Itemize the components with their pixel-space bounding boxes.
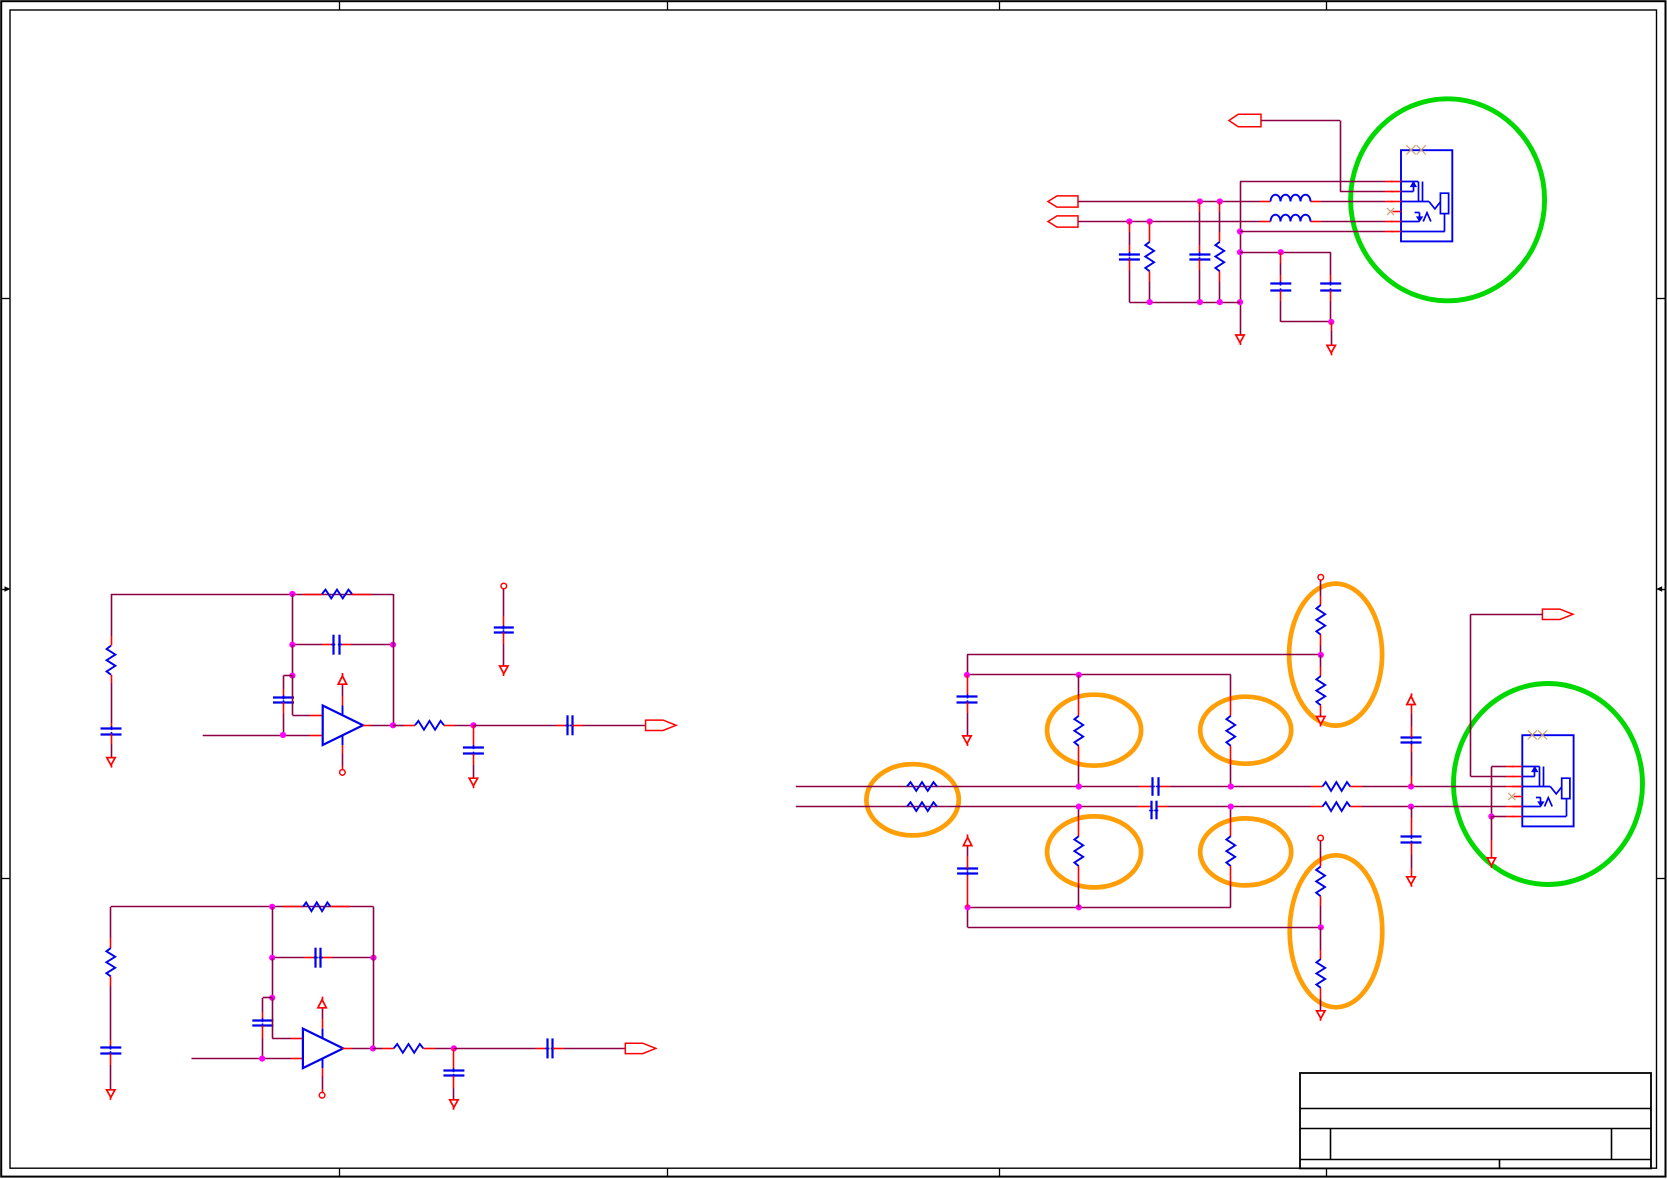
jack J2 no-connect X top pair (1528, 730, 1547, 739)
node D row3 cap junction (1197, 198, 1203, 204)
resistor RA1 (feedback) (303, 590, 371, 599)
wire C top bus right (1350, 786, 1522, 788)
border zone ticks bottom (340, 1168, 1327, 1176)
node C RC5 top junction (1076, 672, 1082, 678)
capacitor CA3 (comp) (273, 695, 294, 704)
jack J1 no-connect X pin4 (1387, 208, 1394, 215)
node D vert junction row6 (1237, 228, 1243, 234)
node B RC junction (451, 1045, 457, 1051)
node B fb-mid left junction (269, 955, 275, 961)
title block row line 2 (1300, 1128, 1651, 1130)
node C divider bottom junction (1318, 924, 1324, 930)
wire C RC9 upper (1078, 807, 1080, 837)
capacitor CC1 (top bus series) (1151, 777, 1160, 796)
wire B left drop (110, 907, 112, 948)
power pin circle C bottom divider (1318, 835, 1324, 841)
jack J2 tip switch arrow (1522, 767, 1537, 777)
wire D CD4 lower (1330, 290, 1332, 322)
wire B shunt drop (453, 1048, 455, 1070)
node B inverting branch junction (269, 995, 275, 1001)
wire CA6 upper (503, 589, 505, 628)
wire D CD1 lower (1129, 259, 1131, 302)
orange ellipse around RC11 RC12 (1290, 855, 1383, 1007)
wire A CA5 to connector (572, 725, 646, 727)
wire A after RA3 (444, 725, 473, 727)
wire E ground drop (1491, 817, 1493, 858)
wire C bottom bus right (1350, 806, 1522, 808)
node E ground junction (1488, 813, 1494, 819)
capacitor CA5 (output series) (565, 715, 574, 735)
resistor RC5 (1074, 716, 1083, 746)
wire B feedback top (111, 906, 374, 908)
jack J2 ring contact line (1522, 787, 1561, 794)
output connector A (646, 720, 677, 730)
orange ellipse around RC1 RC2 (866, 764, 958, 835)
op-amp UB (303, 1029, 343, 1069)
title block cell divider left (1330, 1128, 1332, 1159)
orange ellipse around RC5 (1047, 695, 1141, 766)
wire B output stub (342, 1048, 373, 1050)
resistor RC8 (divider lower) (1316, 676, 1325, 705)
wire C bottom bus left (796, 806, 1151, 808)
wire A output stub (363, 725, 393, 727)
power pin circle CA6 (501, 583, 507, 589)
orange ellipse around RC10 (1200, 818, 1291, 885)
wire C RC8 lower (1320, 705, 1322, 716)
node D row3 res junction (1217, 198, 1223, 204)
wire A left drop (111, 594, 113, 646)
output connector E (1542, 609, 1573, 619)
wire E row1 link (1491, 766, 1514, 768)
capacitor CA6 (decoupling) (494, 626, 514, 635)
wire C below CC3 (967, 702, 969, 736)
border center arrow left (1, 586, 10, 592)
capacitor CC6 (bottom ref) (957, 867, 978, 876)
resistor RC6 (1226, 716, 1235, 746)
jack J2 sleeve lines (1540, 767, 1544, 787)
resistor RA3 (output series) (415, 721, 444, 730)
resistor RB1 (feedback) (283, 902, 350, 911)
node A RC junction (470, 722, 476, 728)
node A inverting branch junction (289, 673, 295, 679)
wire C3 vert (967, 907, 969, 927)
wire CA6 lower (503, 632, 505, 666)
input connector D left upper (1048, 196, 1078, 207)
wire B fb mid vertical (272, 907, 274, 958)
jack J2 no-connect X pin4 (1508, 793, 1515, 800)
border zone ticks left (1, 299, 10, 879)
jack J1 sleeve lines (1419, 182, 1423, 202)
capacitor CB2 (feedback) (314, 948, 323, 968)
title block cell divider right (1611, 1128, 1613, 1159)
node D vert junction w2 (1237, 249, 1243, 255)
wire C RC9 lower (1078, 866, 1080, 907)
jack J1 tip contact line (1401, 181, 1418, 183)
output connector B (625, 1043, 656, 1053)
wire A to CA5 (473, 725, 567, 727)
ground C top ref (963, 736, 971, 746)
wire A inverting input (292, 676, 322, 716)
ground arrow C bottom (1407, 877, 1415, 887)
node A input junction (280, 732, 286, 738)
wire D row3 line (1078, 201, 1393, 203)
wire C bottom bus mid (1156, 806, 1322, 808)
ground B output (450, 1100, 458, 1110)
power pin circle UA V- (340, 770, 346, 776)
resistor RA2 (input shunt) (107, 646, 116, 675)
wire C above CC6 (967, 846, 969, 869)
wire A CA3 to input line (283, 702, 285, 735)
jack J2 pin stubs (1512, 767, 1522, 817)
wire A below RA2 (111, 675, 113, 728)
node D cap ground junction (1328, 319, 1334, 325)
wire D RD2 upper (1219, 202, 1221, 242)
resistor RC3 (top bus series right) (1323, 782, 1351, 791)
wire D connector link (1261, 121, 1393, 192)
node C RC5 bus junction (1076, 783, 1082, 789)
node D rail junction 2 (1197, 299, 1203, 305)
wire C RC11 upper (1320, 841, 1322, 867)
node A fb-mid left junction (289, 642, 295, 648)
inductor LD2 (1271, 215, 1311, 222)
wire B below CB4 (453, 1076, 455, 1100)
wire A feedback mid (292, 644, 393, 646)
jack J1 no-connect X top pair (1406, 145, 1425, 154)
node C cap top junction (964, 672, 970, 678)
input connector D left lower (1048, 216, 1078, 227)
wire B after RB3 (423, 1048, 454, 1050)
node B output junction (370, 1045, 376, 1051)
green circle around jack J2 (1454, 684, 1643, 885)
ground D second (1327, 345, 1335, 355)
ground D main (1236, 335, 1244, 345)
ground E (1487, 858, 1495, 868)
capacitor CD2 (1189, 252, 1210, 261)
node C RC6 bus junction (1228, 783, 1234, 789)
wire A below CA1 (111, 734, 113, 758)
wire C RC8 upper (1320, 655, 1322, 676)
border center arrow right (1656, 586, 1665, 592)
capacitor CB4 (output shunt) (443, 1068, 464, 1078)
title block row line 3 (1300, 1159, 1651, 1161)
node C RC10 bus junction (1228, 804, 1234, 810)
jack J1 switch box (1440, 193, 1448, 213)
capacitor CA4 (output shunt) (463, 745, 484, 756)
node D w2 junction (1278, 249, 1284, 255)
power arrow C top (1407, 693, 1415, 704)
wire B below CB1 (110, 1053, 112, 1090)
wire B inverting input (272, 998, 303, 1039)
resistor RC7 (divider upper) (1316, 605, 1325, 635)
wire C RD1 upper (1320, 580, 1322, 605)
capacitor CD4 (1320, 282, 1341, 293)
wire D row5 line (1078, 221, 1393, 223)
wire A fb mid vertical (292, 594, 294, 645)
wire A fb to inverting node (292, 645, 294, 676)
wire C below CC5 (1411, 843, 1413, 877)
jack J2 body (1522, 735, 1573, 826)
capacitor CC5 (bottom bypass) (1401, 835, 1422, 845)
capacitor CA1 (left) (101, 726, 122, 736)
wire B CB3 to input line (262, 1026, 264, 1059)
wire A output (393, 725, 415, 727)
orange ellipse around RC6 (1200, 697, 1291, 764)
op-amp UB power rail line (322, 1006, 324, 1038)
capacitor CC4 (top bypass) (1401, 735, 1422, 744)
wire D row6 link (1240, 231, 1393, 233)
wire E connector link (1471, 614, 1543, 776)
wire D CD4 upper (1330, 252, 1332, 283)
green circle around jack J1 (1351, 99, 1545, 301)
orange ellipse around RC7 RC8 (1289, 584, 1382, 726)
border zone ticks right (1657, 299, 1666, 879)
wire D RD1 upper (1149, 222, 1151, 242)
wire C2 upper link (967, 674, 1231, 676)
wire C RC10 lower (1230, 866, 1232, 907)
wire B right feedback vertical (373, 907, 375, 1049)
resistor RC11 (divider upper) (1316, 867, 1325, 897)
wire D ground vertical (1240, 182, 1242, 336)
ground A left (107, 758, 115, 768)
jack J1 sleeve switch arrow (1415, 213, 1423, 222)
wire C top bus left (796, 786, 1153, 788)
jack J1 ring contact line (1401, 202, 1440, 209)
wire D RC rail (1129, 302, 1240, 304)
wire D CD2 lower (1199, 259, 1201, 302)
resistor RD2 (1215, 242, 1224, 272)
capacitor CC3 (top ref) (957, 694, 978, 704)
resistor RB3 (output series) (394, 1044, 424, 1053)
jack J1 tip switch arrow (1401, 182, 1416, 192)
wire B CB5 to connector (553, 1048, 625, 1050)
wire D row1 link (1240, 181, 1393, 183)
jack J1 sleeve contact tent (1401, 213, 1431, 222)
power pin circle C top divider (1318, 575, 1324, 581)
node B fb-mid right junction (370, 955, 376, 961)
wire C cap bottom rise (967, 873, 969, 907)
capacitor CB3 (comp) (252, 1018, 273, 1027)
capacitor CD3 (1270, 282, 1291, 293)
ground C bottom divider (1317, 1011, 1325, 1021)
node C bus right top junction (1408, 783, 1414, 789)
wire C RC5 lower (1078, 746, 1080, 787)
power arrow UB V+ (318, 997, 326, 1008)
wire D RD1 lower (1149, 271, 1151, 302)
jack J2 sleeve contact tent (1522, 798, 1552, 807)
wire C RC12 lower (1320, 988, 1322, 1011)
resistor RC10 (1226, 836, 1235, 866)
jack J1 body (1401, 150, 1452, 241)
wire C RC11 lower (1320, 896, 1322, 927)
wire A comp branch (284, 676, 293, 698)
title block row line 1 (1300, 1108, 1651, 1110)
ground CA6 (500, 666, 508, 676)
wire E row6 link (1491, 816, 1514, 818)
wire A right feedback vertical (393, 594, 395, 725)
wire D CD3 upper (1280, 252, 1282, 283)
capacitor CB5 (output series) (545, 1038, 555, 1058)
wire C RC12 upper (1320, 927, 1322, 959)
power arrow C bottom ref (963, 834, 971, 845)
node D row5 cap junction (1126, 218, 1132, 224)
wire A below CA4 (473, 754, 475, 778)
power arrow UA V+ (338, 673, 346, 684)
title block frame (1300, 1073, 1651, 1168)
wire B below RB2 (110, 977, 112, 1048)
ground B left (107, 1090, 115, 1100)
wire C3 lower link (968, 927, 1321, 929)
resistor RC4 (bottom bus series right) (1323, 802, 1351, 811)
wire D w2 link (1240, 252, 1331, 254)
capacitor CD1 (1119, 252, 1140, 261)
node B feedback-top junction (269, 904, 275, 910)
node B input junction (259, 1056, 265, 1062)
node D vert junction rail (1237, 299, 1243, 305)
wire C RC6 lower (1230, 746, 1232, 787)
node C RC9 bus junction (1076, 804, 1082, 810)
node C cap bottom junction (965, 904, 971, 910)
op-amp UA (323, 706, 363, 746)
input connector D top (1229, 114, 1261, 126)
wire D CD3 lower (1281, 290, 1332, 322)
node D row5 res junction (1147, 218, 1153, 224)
wire D CD1 upper (1129, 222, 1131, 255)
wire D CD2 upper (1199, 202, 1201, 255)
orange ellipse around RC9 (1047, 816, 1141, 887)
capacitor CA2 (feedback) (331, 635, 342, 655)
wire B to CB5 (454, 1048, 547, 1050)
jack J2 bottom return line (1522, 799, 1566, 817)
resistor RC2 (bottom series input) (907, 802, 937, 811)
jack J1 pin stubs (1391, 182, 1401, 232)
wire E row1-row6 vertical (1491, 767, 1493, 817)
wire D ground 2 drop (1331, 322, 1333, 345)
resistor RC9 (1074, 836, 1083, 866)
wire C RC10 upper (1230, 807, 1232, 837)
node C divider top junction (1318, 652, 1324, 658)
node C RC9 bottom junction (1076, 904, 1082, 910)
wire C RC6 upper (1230, 675, 1232, 716)
op-amp UB neg rail line (322, 1058, 324, 1092)
wire C RC7 to node (1320, 635, 1322, 655)
wire A non-inverting input line (203, 735, 323, 737)
wire A feedback top (111, 594, 393, 596)
wire C cap top drop (967, 675, 969, 696)
node C bus right bottom junction (1408, 804, 1414, 810)
wire C top bus mid (1158, 786, 1323, 788)
wire C bottom bypass (1411, 807, 1413, 837)
resistor RC1 (top series input) (907, 782, 937, 791)
ground C top divider (1317, 717, 1325, 727)
jack J2 sleeve switch arrow (1536, 798, 1544, 807)
wire B feedback mid (272, 957, 373, 959)
title block bottom divider (1499, 1159, 1501, 1168)
wire C4 lower link (968, 907, 1231, 909)
resistor RB2 (input shunt) (106, 948, 115, 977)
border zone ticks top (340, 1, 1327, 10)
node D rail junction 3 (1217, 299, 1223, 305)
wire B comp branch (263, 998, 273, 1021)
inductor LD1 (1271, 195, 1311, 202)
node D rail junction 1 (1147, 299, 1153, 305)
resistor RC12 (divider lower) (1316, 959, 1325, 988)
wire C1 upper link (967, 654, 1321, 656)
wire C1 vert (967, 655, 969, 675)
node A fb-mid right junction (390, 642, 396, 648)
node A output junction (390, 722, 396, 728)
ground A output (469, 778, 477, 788)
resistor RD1 (1145, 242, 1154, 272)
op-amp UA power rail line (342, 685, 344, 716)
wire C above CC4 (1411, 705, 1413, 737)
wire C RC5 upper (1078, 675, 1080, 716)
op-amp UA neg rail line (342, 735, 344, 769)
jack J1 bottom return line (1401, 214, 1445, 232)
jack J2 tip contact line (1522, 766, 1539, 768)
node A feedback-top junction (289, 591, 295, 597)
capacitor CC2 (bottom bus series) (1149, 801, 1158, 820)
wire B output (373, 1048, 394, 1050)
wire C top bypass (1411, 743, 1413, 787)
jack J2 switch box (1562, 778, 1570, 798)
wire A shunt drop (473, 725, 475, 747)
wire D RD2 lower (1219, 271, 1221, 302)
wire B fb to inverting node (272, 958, 274, 998)
power pin circle UB V- (319, 1092, 325, 1098)
wire B non-inverting input line (192, 1058, 303, 1060)
capacitor CB1 (left) (100, 1046, 121, 1056)
